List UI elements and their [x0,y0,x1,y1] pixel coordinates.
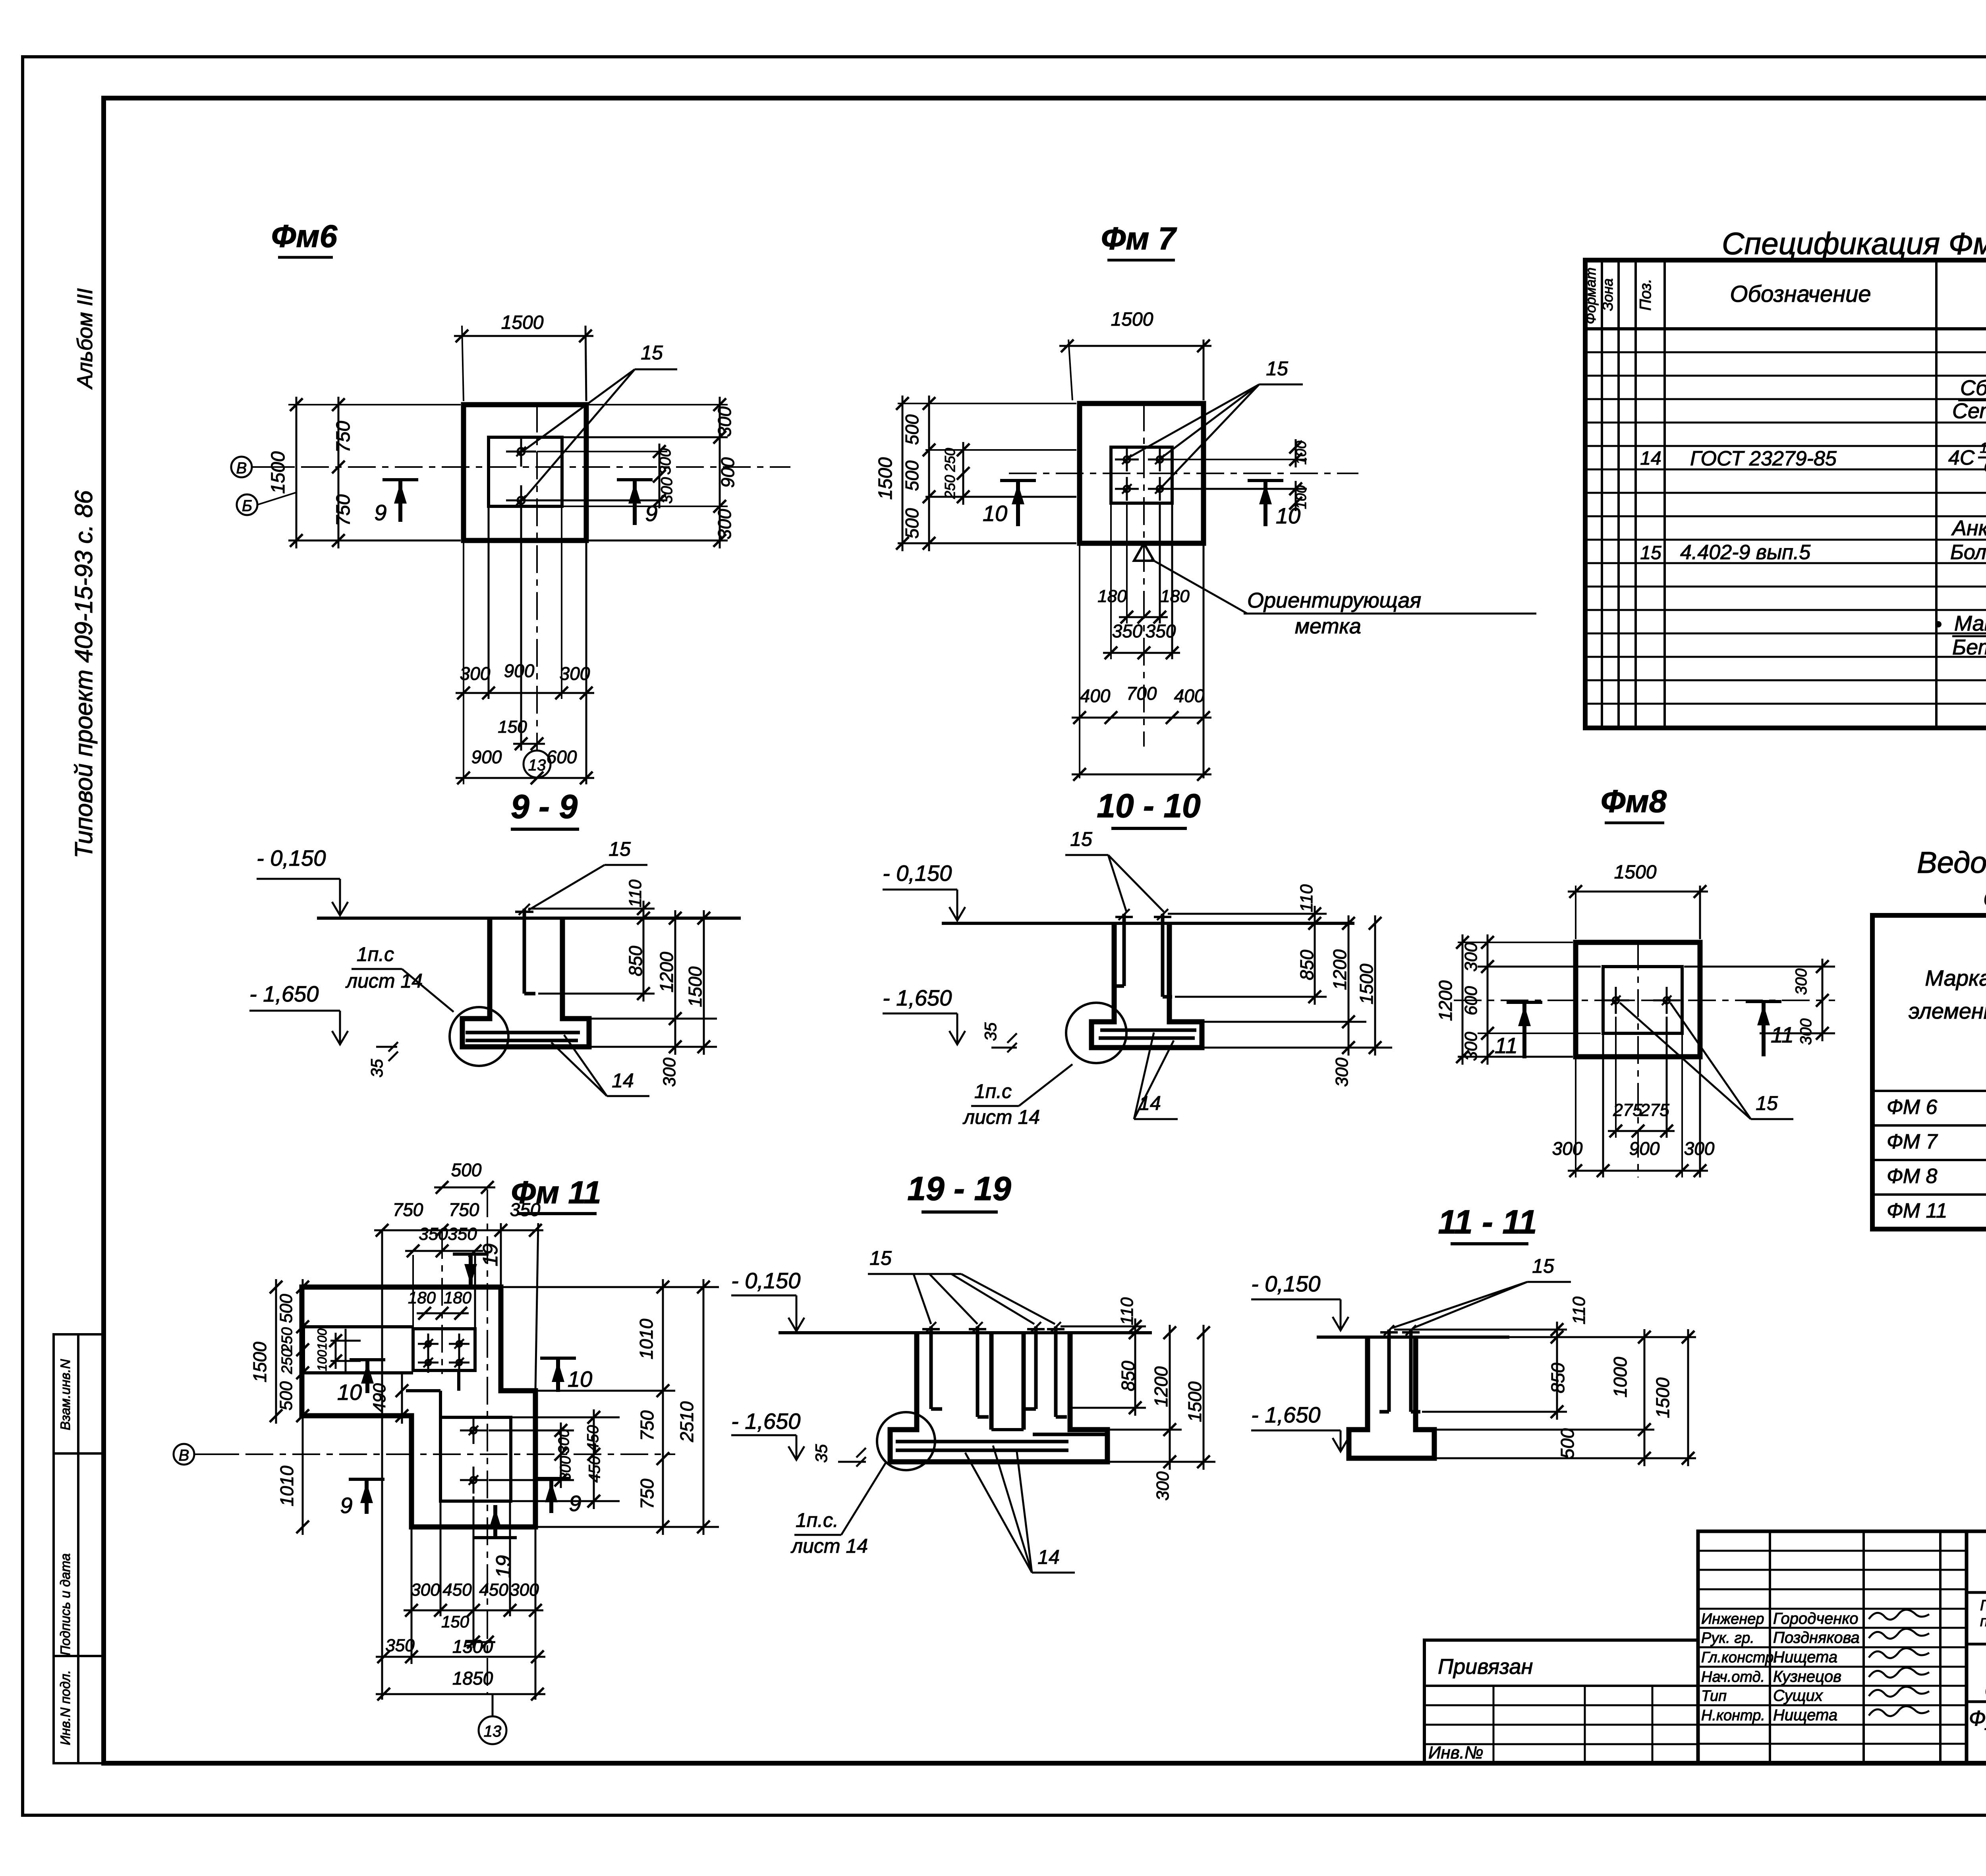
svg-text:850: 850 [1118,1361,1138,1391]
svg-text:700: 700 [1126,683,1157,704]
svg-text:Инв.№: Инв.№ [1428,1743,1484,1762]
section 9-9 level -1.650 [249,981,348,1044]
svg-text:400: 400 [1174,685,1205,706]
svg-text:900: 900 [717,457,738,488]
FM11 left dimension 1010 [276,1408,309,1535]
section 11-11 bolts leader 15 [1392,1255,1571,1328]
svg-text:ФМ 7: ФМ 7 [1887,1130,1938,1153]
svg-text:Привязан: Привязан [1438,1655,1533,1679]
svg-text:Фм8: Фм8 [1601,784,1667,819]
svg-text:11 - 11: 11 - 11 [1438,1203,1537,1241]
section 11-11 right dim 1500 [1652,1329,1694,1466]
svg-text:500: 500 [902,508,922,538]
section 19-19 right dim 1500 [1184,1325,1210,1470]
FM6 axis circle B [237,492,296,515]
svg-text:Бетон марки 200: Бетон марки 200 [1952,635,1986,659]
FM11 bottom extension lines [411,1496,535,1700]
FM11 embed cross bottom [330,1349,361,1373]
section 10-10 foundation profile [1092,923,1202,1048]
FM7 section mark 10 right [1248,481,1300,528]
FM8 bottom dimension 300 900 300 [1552,1033,1715,1177]
FM6 axis line horizontal [254,466,790,468]
FM7 axis line horizontal [1009,473,1358,474]
svg-text:1500: 1500 [501,312,544,333]
svg-text:4С: 4С [1948,446,1975,469]
svg-text:1500: 1500 [1184,1381,1205,1422]
FM11 section mark 10 left [337,1360,385,1405]
FM7 orienting mark triangle [1134,543,1154,561]
svg-text:300: 300 [556,1429,572,1454]
section 19-19 right dims 110 850 [1061,1297,1146,1416]
svg-text:100: 100 [315,1350,329,1371]
svg-text:1500: 1500 [1652,1377,1673,1418]
svg-text:Альбом III: Альбом III [73,288,97,390]
svg-text:900: 900 [1629,1138,1660,1159]
svg-text:19: 19 [492,1555,515,1578]
svg-text:500: 500 [902,414,922,445]
FM11 right bolt dims 300 300 [554,1422,574,1488]
section 11-11 right dims 1000 500 [1434,1329,1696,1466]
svg-text:элемента: элемента [1909,998,1986,1023]
svg-text:2510: 2510 [676,1401,697,1442]
svg-text:1500: 1500 [1111,309,1153,330]
section 9-9 title [511,788,579,829]
svg-text:Позднякова: Позднякова [1773,1629,1860,1646]
svg-text:350: 350 [385,1636,415,1655]
svg-text:900: 900 [471,747,502,767]
svg-text:Спецификация Фм 6 ÷ Фм 8: Спецификация Фм 6 ÷ Фм 8; Фм 11 [1722,226,1986,261]
FM7 axis line vertical [1143,403,1145,747]
section 9-9 detail circle [450,1007,508,1066]
svg-text:100: 100 [315,1328,329,1350]
svg-text:15: 15 [609,838,631,860]
FM6 section mark 9 left [374,480,418,525]
FM11 top pocket anchor bolt 3 [418,1352,439,1373]
svg-text:Б: Б [242,497,252,515]
svg-text:10АП - 200: 10АП - 200 [1980,440,1986,456]
FM8 bottom dimension 275 275 [1608,1017,1675,1138]
svg-text:Сборочные единицы: Сборочные единицы [1960,376,1986,400]
svg-text:500: 500 [276,1294,296,1323]
section 19-19 ground line [779,1331,1152,1334]
FM7 bottom dimension 400 700 400 [1072,543,1211,778]
section 9-9 foundation profile [462,918,589,1047]
svg-text:1п.с: 1п.с [357,943,394,965]
FM11 top dimension 750 750 350 [374,1199,543,1700]
svg-text:В: В [179,1447,189,1464]
svg-text:- 0,150: - 0,150 [731,1268,800,1293]
section 10-10 rebar leader 14 [1134,1033,1178,1119]
FM11 foundation stepped outline [302,1287,535,1527]
title block project description [1980,1597,1986,1644]
svg-text:Кузнецов: Кузнецов [1773,1668,1841,1685]
FM11 top dimension 350 350 [405,1224,483,1329]
specification table grid [1585,260,1986,728]
svg-text:100: 100 [1293,441,1309,465]
svg-text:ГОСТ 23279-85: ГОСТ 23279-85 [1690,447,1837,470]
FM8 anchor bolt left [1602,987,1629,1014]
svg-text:программой 200тыс.руб. (для: программой 200тыс.руб. (для районов с се… [1980,1613,1986,1630]
svg-text:Тип: Тип [1701,1688,1727,1704]
svg-text:Фм6: Фм6 [271,218,338,254]
steel table grid [1872,915,1986,1229]
section 9-9 dim 35 [367,1042,398,1077]
FM11 plan title [511,1175,601,1214]
FM8 top dimension 1500 [1568,862,1708,939]
FM11 bottom dims 300 450 450 300 [404,1580,543,1617]
section 19-19 bolts leader 15 [868,1247,1055,1324]
svg-text:180: 180 [1160,587,1190,606]
title block signature table [1698,1531,1967,1763]
FM11 right dims 450 450 [584,1409,603,1509]
section 9-9 rebar leader 14 [551,1035,649,1096]
svg-text:750: 750 [333,494,354,526]
svg-text:ФМ 6: ФМ 6 [1887,1096,1938,1119]
section 10-10 level -0.150 [883,861,965,921]
svg-text:19 - 19: 19 - 19 [907,1170,1011,1207]
section 9-9 right dim 1500 [685,910,710,1055]
svg-text:Марка: Марка [1925,965,1986,990]
svg-text:450: 450 [584,1425,602,1452]
FM8 anchor bolt right [1653,987,1680,1014]
svg-text:лист 14: лист 14 [790,1535,868,1557]
section 10-10 title [1097,787,1201,828]
section 10-10 detail label 1p.s list 14 [962,1064,1072,1128]
svg-text:Формат: Формат [1582,268,1599,324]
svg-text:300: 300 [510,1580,539,1600]
FM11 bottom pocket anchor bolt bottom [460,1467,487,1494]
section 9-9 detail label 1p.s list 14 [345,943,454,1012]
FM11 right chain 1010 750 750 [636,1279,669,1535]
section 10-10 bolt leader 15 [1065,828,1164,912]
FM6 axis circle 13 [524,751,551,778]
section 11-11 ground line [1317,1336,1509,1339]
svg-text:Подпись и дата: Подпись и дата [58,1553,73,1655]
svg-text:490: 490 [370,1383,389,1413]
FM7 foundation outer square [1080,403,1204,543]
section 9-9 ground line [317,917,741,920]
FM8 left dimension 1200 [1435,934,1469,1065]
FM6 right dimension 300 900 300 [562,397,738,548]
svg-text:Нищета: Нищета [1773,1648,1837,1666]
FM6 bottom dimension 300 900 300 [456,506,594,784]
svg-text:300: 300 [460,663,491,684]
svg-text:350: 350 [1112,621,1143,641]
FM11 pocket with 2 bolts [440,1417,511,1501]
svg-text:13: 13 [484,1723,502,1740]
svg-text:15: 15 [1756,1092,1778,1114]
FM6 section mark 9 right [617,480,658,526]
svg-text:19: 19 [479,1243,502,1266]
FM11 section mark 9 left [340,1479,384,1518]
svg-text:350: 350 [510,1199,541,1220]
svg-text:- 0,150: - 0,150 [257,845,326,870]
svg-text:300: 300 [1552,1138,1583,1159]
svg-text:750: 750 [637,1478,657,1509]
svg-text:Взам.инв.N: Взам.инв.N [58,1359,73,1430]
FM7 bottom dimension 180 180 [1097,503,1190,623]
steel table data rows [1887,1096,1986,1222]
margin text Tipovoy proekt [70,490,98,858]
svg-text:300: 300 [714,509,735,539]
svg-text:850: 850 [625,946,646,976]
svg-text:15: 15 [1640,542,1661,564]
section 10-10 detail circle [1066,1003,1126,1063]
svg-text:10: 10 [568,1366,592,1392]
svg-text:Рук. гр.: Рук. гр. [1701,1630,1754,1646]
svg-text:1500: 1500 [268,451,289,494]
svg-text:Инв.N подл.: Инв.N подл. [58,1670,73,1745]
svg-text:300: 300 [1684,1138,1715,1159]
svg-text:500: 500 [276,1381,296,1411]
section 10-10 right dims 110 850 [1168,884,1327,1005]
svg-text:350: 350 [448,1224,477,1244]
svg-text:- 0,150: - 0,150 [883,861,952,886]
FM11 top pocket anchor bolt 4 [449,1352,469,1373]
section 11-11 level -1.650 [1251,1402,1348,1451]
svg-text:15: 15 [1070,828,1092,850]
section 10-10 dim 35 [981,1022,1017,1052]
svg-text:Ведомость расхода стали: Ведомость расхода стали на [1917,846,1986,880]
section 19-19 detail circle [877,1412,935,1470]
section 10-10 anchor bolt right [1154,909,1172,997]
svg-text:В: В [236,459,247,477]
specification table title [1722,226,1986,261]
svg-text:110: 110 [1297,884,1316,912]
section 11-11 level -0.150 [1251,1271,1348,1330]
svg-text:11: 11 [1495,1033,1518,1058]
margin text Album III [73,283,102,390]
FM11 section mark 10 right [540,1358,592,1392]
svg-text:250: 250 [942,475,958,499]
FM8 section mark 11 left [1495,1002,1542,1058]
svg-text:15: 15 [1266,357,1288,380]
svg-text:Обозначение: Обозначение [1730,281,1871,307]
FM11 right dim 2510 [676,1279,710,1535]
section 10-10 anchor bolt left [1115,909,1133,986]
svg-text:300: 300 [660,1058,679,1087]
svg-text:9: 9 [374,500,386,525]
section 10-10 level -1.650 [883,985,965,1044]
svg-text:1200: 1200 [656,952,677,992]
FM11 step connector lines [406,1370,459,1417]
specification row: sborochnye edinicy [1958,376,1986,400]
FM11 section mark 9 right [533,1478,582,1516]
FM7 plan title [1101,221,1177,260]
svg-text:Н.контр.: Н.контр. [1701,1707,1765,1724]
svg-text:1500: 1500 [1356,963,1377,1004]
svg-text:9: 9 [340,1493,352,1518]
svg-text:500: 500 [902,460,922,491]
FM11 left dimension 1500 [249,1279,282,1424]
section 19-19 dim 35 [812,1444,866,1467]
section 19-19 right dims 1200 300 [1107,1325,1215,1501]
svg-text:600: 600 [1461,986,1481,1015]
FM11 bottom section mark 19 [474,1505,517,1578]
FM7 section mark 10 left [983,481,1036,526]
section 9-9 right dims 1200 300 [589,910,717,1087]
svg-text:1200: 1200 [1435,980,1456,1021]
svg-text:180: 180 [444,1288,472,1307]
svg-text:1500: 1500 [452,1636,493,1657]
FM6 left dimension 750 750 [332,397,354,548]
svg-text:Инженер: Инженер [1701,1611,1764,1627]
FM7 anchor bolt 3 [1115,477,1139,501]
svg-text:10: 10 [337,1380,362,1405]
svg-text:Производственная база ремстр: Производственная база ремстройучастка с … [1980,1597,1986,1614]
FM7 anchor bolt 2 [1148,448,1172,471]
svg-text:Анкерные болты: Анкерные болты [1951,516,1986,540]
steel consumption table title [1917,846,1986,912]
FM11 pocket with 4 bolts [413,1329,475,1370]
specification row: materialy [1936,612,1986,636]
svg-text:180: 180 [408,1288,436,1307]
svg-text:1500: 1500 [249,1341,270,1382]
FM7 anchor bolt 1 [1115,448,1139,471]
svg-text:метка: метка [1295,614,1361,638]
FM11 left dimension chain 500 250 250 500 [276,1279,309,1424]
FM11 axis circle 13 [479,1694,506,1744]
svg-text:лист 14: лист 14 [962,1106,1040,1128]
svg-text:Фундаменты монолитные: Фундаменты монолитные [1969,1706,1986,1730]
svg-text:850: 850 [1547,1363,1568,1393]
specification row: beton marki 200 [1952,632,1986,659]
svg-text:Гл.констр.: Гл.констр. [1701,1649,1778,1666]
svg-text:450: 450 [442,1580,472,1600]
svg-text:35: 35 [981,1022,1000,1041]
section 19-19 level -0.150 [731,1268,804,1331]
FM8 plan title [1601,784,1667,823]
FM7 right dimension 100 100 [1172,439,1309,511]
svg-text:10 - 10: 10 - 10 [1097,787,1201,824]
section 19-19 anchor bolts [922,1322,1067,1417]
svg-text:300: 300 [557,1456,574,1481]
FM11 bottom pocket anchor bolt top [460,1417,487,1444]
FM8 bolts leader 15 [1620,1003,1793,1119]
FM11 embed cross top [330,1329,361,1353]
svg-text:14: 14 [1037,1546,1060,1568]
FM6 anchor bolt top [506,436,536,467]
svg-text:850: 850 [1296,950,1317,980]
svg-text:1010: 1010 [276,1465,297,1506]
section 9-9 level -0.150 [257,845,348,915]
svg-text:300: 300 [560,663,590,684]
specification header texts [1582,267,1986,324]
FM8 left dimension 300 600 300 [1458,934,1601,1065]
FM11 bottom dim 1850 [376,1668,545,1700]
svg-text:1500: 1500 [685,966,705,1007]
svg-text:110: 110 [1569,1296,1589,1324]
title block signature rows text [1701,1610,1929,1724]
FM7 bottom tick row [1072,768,1211,781]
svg-text:Поз.: Поз. [1637,279,1654,311]
section 9-9 footing rebar [466,1033,580,1040]
svg-text:ФМ 11: ФМ 11 [1887,1199,1947,1222]
svg-text:180: 180 [1097,587,1127,606]
FM6 bottom dimension 900 600 [456,747,594,784]
svg-text:один элемент, кг: один элемент, кг [1984,881,1986,912]
FM8 column pocket [1603,967,1682,1033]
section 10-10 right dims 1200 300 [1202,915,1392,1087]
FM6 bolts leader 15 [524,342,677,498]
FM6 top dimension 1500 [454,312,593,401]
svg-text:110: 110 [626,879,645,907]
svg-text:1010: 1010 [636,1318,657,1359]
svg-text:1850: 1850 [452,1668,493,1689]
svg-text:750: 750 [637,1410,657,1441]
section 11-11 title [1438,1203,1537,1244]
svg-text:Типовой проект 409-15: Типовой проект 409-15-93 с. 86 [70,490,98,858]
FM6 bottom dimension 150 [498,506,545,751]
FM11 top pocket anchor bolt 2 [449,1334,469,1354]
svg-text:9: 9 [645,501,657,526]
svg-text:лист 14: лист 14 [345,970,423,992]
FM11 axis vertical left column [441,1231,443,1374]
FM7 top dimension 1500 [1059,309,1211,400]
title block object name [1985,1651,1986,1702]
svg-text:9 - 9: 9 - 9 [511,788,578,825]
FM6 axis circle V [231,457,294,477]
FM6 column pocket [489,437,562,506]
svg-text:600: 600 [547,747,577,767]
FM11 bottom dims 350 1500 [376,1636,545,1663]
svg-text:- 1,650: - 1,650 [883,985,952,1010]
svg-text:500: 500 [1557,1428,1578,1459]
FM7 column pocket [1111,447,1172,503]
FM7 anchor bolt 4 [1148,477,1172,501]
section 11-11 right dims 110 850 [1394,1296,1589,1420]
svg-text:300: 300 [1153,1471,1173,1501]
svg-text:300: 300 [1797,1019,1815,1045]
FM6 axis line vertical to circle 13 [536,405,538,751]
FM8 section mark 11 right [1746,1002,1794,1056]
specification row 14: GOST 23279-85 mesh [1640,440,1986,475]
svg-text:300: 300 [1332,1058,1352,1087]
section 10-10 ground line [942,922,1354,925]
svg-text:14: 14 [612,1069,634,1092]
section 19-19 footing rebar [896,1434,1105,1450]
FM11 axis vertical right column [487,1189,488,1694]
FM8 foundation outer square [1576,942,1700,1057]
section 19-19 detail label 1p.s list 14 [790,1461,887,1557]
svg-text:Сетки арматурные: Сетки арматурные [1952,399,1986,423]
svg-text:150: 150 [498,717,527,737]
section 19-19 level -1.650 [731,1409,804,1460]
title block main right part frame [1967,1531,1986,1763]
svg-text:350: 350 [1146,621,1176,641]
section 11-11 anchor bolt right [1402,1325,1420,1412]
svg-text:900: 900 [504,660,535,681]
FM6 right bolt dimension 300 300 [537,444,676,508]
svg-text:450: 450 [586,1456,603,1483]
FM8 axis line vertical [1637,942,1639,1177]
svg-text:1000: 1000 [1610,1357,1631,1397]
specification row: ankernye bolty [1951,516,1986,540]
svg-text:300: 300 [1461,942,1481,972]
FM11 right extension lines [489,1287,719,1527]
svg-text:300: 300 [411,1580,440,1600]
specification row: setki armaturnye [1952,399,1986,423]
svg-text:275: 275 [1613,1100,1642,1120]
svg-text:Городченко: Городченко [1773,1610,1858,1627]
svg-text:1п.с: 1п.с [974,1080,1012,1102]
svg-text:9: 9 [569,1491,581,1516]
svg-text:250: 250 [279,1349,296,1374]
svg-text:Фм 7: Фм 7 [1101,221,1177,256]
section 9-9 right dims 110 850 [528,879,655,1002]
svg-text:10: 10 [983,501,1007,526]
FM11 top section mark 19 [453,1243,502,1288]
